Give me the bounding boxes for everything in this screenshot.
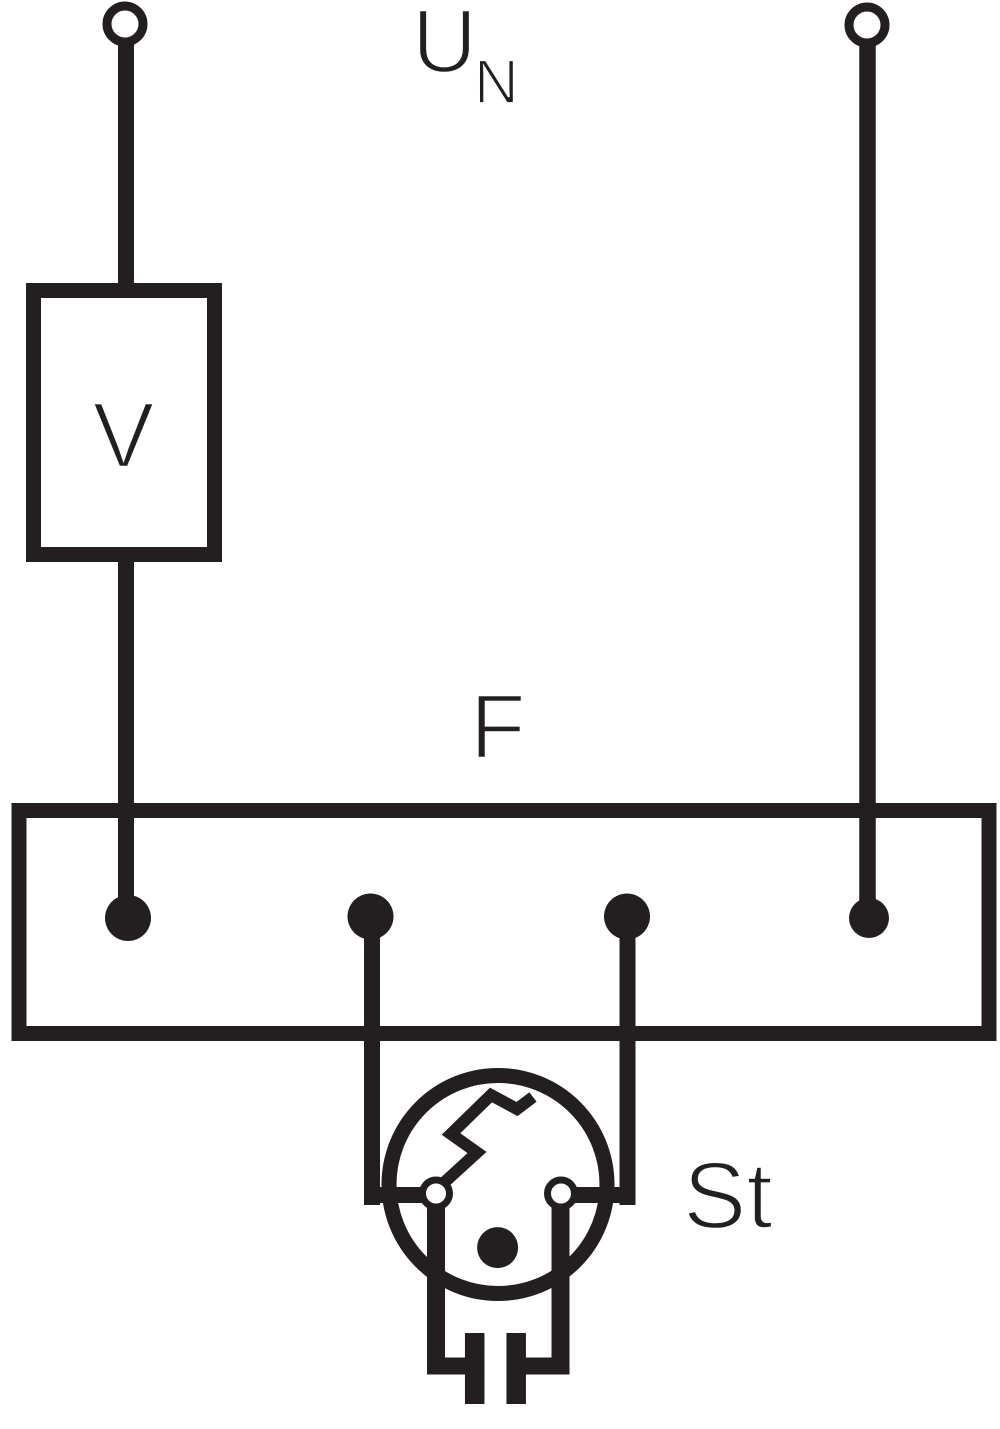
socket St body circle <box>389 1076 607 1294</box>
terminal circle right (U_N input -) <box>849 7 885 43</box>
wire from dot 3 down to socket St <box>620 917 636 1205</box>
stub wire to right pin <box>561 1187 635 1203</box>
plug foot left <box>429 1358 485 1375</box>
stub wire to left pin <box>364 1187 436 1203</box>
wire from left terminal to voltmeter V <box>118 41 134 292</box>
junction dot 1 <box>105 895 151 941</box>
terminal circle left (U_N input +) <box>107 6 143 42</box>
junction dot 2 <box>348 894 394 940</box>
wire from right terminal down to strip F <box>859 42 876 918</box>
junction dot 4 <box>849 898 889 938</box>
svg-text:F: F <box>470 677 526 778</box>
left pin lead down <box>427 1193 445 1375</box>
socket switch zigzag with hook <box>436 1095 533 1190</box>
svg-text:N: N <box>474 48 519 117</box>
wire from dot 2 down to socket St <box>364 917 380 1205</box>
svg-text:St: St <box>683 1143 773 1249</box>
plug foot right <box>507 1358 570 1375</box>
right pin lead down <box>552 1193 570 1375</box>
voltmeter V (box) <box>34 291 215 555</box>
right pin contact circle <box>548 1180 575 1207</box>
plug prong left <box>465 1333 485 1404</box>
plug prong right <box>506 1333 526 1404</box>
socket earth dot <box>477 1227 518 1268</box>
svg-text:V: V <box>92 383 154 487</box>
terminal strip F (box) <box>19 811 989 1034</box>
svg-text:U: U <box>412 0 477 92</box>
left pin contact circle <box>423 1180 450 1207</box>
junction dot 3 <box>604 894 650 940</box>
wire from voltmeter V to strip F <box>118 555 134 918</box>
